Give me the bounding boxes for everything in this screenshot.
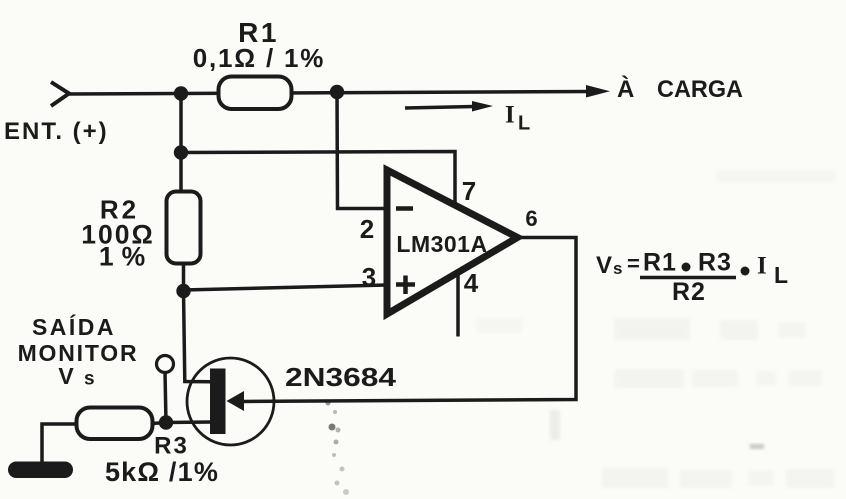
minus input mark [396, 206, 413, 211]
junction node: source/R3 [159, 415, 173, 429]
wire: V+ rail to pin 7 [181, 152, 455, 208]
wire: node B down to transistor drain [184, 291, 212, 382]
svg-text:2N3684: 2N3684 [285, 362, 397, 392]
wire: source to R3 node [166, 420, 211, 424]
svg-text:3: 3 [362, 262, 376, 292]
svg-text:LM301A: LM301A [396, 231, 487, 257]
svg-text:R2: R2 [672, 278, 706, 306]
resistor R2 [167, 192, 201, 264]
svg-text:0,1Ω / 1%: 0,1Ω / 1% [193, 43, 325, 73]
svg-text:V: V [58, 363, 74, 389]
formula Vs = R1.R3/R2 . IL [596, 249, 788, 307]
svg-text:6: 6 [525, 206, 537, 231]
wire: R3 right to node [152, 423, 166, 424]
svg-text:1%: 1% [99, 242, 153, 272]
svg-text:R3: R3 [154, 433, 189, 460]
resistor R1 [219, 77, 292, 110]
svg-text:7: 7 [462, 176, 476, 206]
arrowhead to load [586, 85, 610, 98]
svg-text:2: 2 [360, 214, 374, 244]
svg-text:s: s [84, 369, 95, 390]
wire: node B to pin 3 [184, 285, 388, 290]
svg-text:s: s [613, 259, 622, 278]
svg-text:ENT. (+): ENT. (+) [4, 118, 109, 145]
op-amp U1 LM301A triangle [387, 170, 518, 314]
ground symbol [8, 462, 73, 479]
resistor R3 [77, 408, 153, 440]
junction node: R1/load/pin2 [330, 85, 344, 99]
svg-text:=: = [627, 251, 640, 276]
plus input mark [396, 282, 415, 287]
wire: pin 2 from load side of R1 [337, 92, 387, 209]
ink smudge trail [326, 401, 765, 496]
junction node: V+ rail [174, 145, 188, 159]
svg-text:SAÍDA: SAÍDA [32, 313, 116, 340]
svg-text:MONITOR: MONITOR [18, 340, 139, 366]
svg-text:L: L [518, 113, 530, 135]
svg-text:CARGA: CARGA [657, 76, 743, 103]
gate arrowhead [227, 391, 245, 411]
open terminal Vs monitor [157, 356, 174, 373]
wire: output pin 6 to gate loop [242, 238, 576, 402]
current arrow IL [405, 107, 474, 109]
svg-text:R3: R3 [698, 249, 732, 277]
wire: R2 bottom to node B [182, 264, 186, 292]
svg-text:L: L [774, 262, 788, 288]
input terminal ENT(+) chevron [51, 82, 69, 106]
junction node: input/R1 [174, 86, 188, 100]
wire: R3 left to ground [42, 424, 77, 463]
svg-text:R1: R1 [643, 249, 677, 277]
svg-text:4: 4 [464, 268, 479, 298]
transistor Q1 2N3684 circle [187, 358, 274, 445]
transistor channel bar [210, 369, 226, 435]
wire: main rail to load [66, 92, 590, 95]
wire: node A vertical (input side of R1) [179, 94, 183, 194]
svg-text:5kΩ /1%: 5kΩ /1% [105, 457, 219, 487]
wire: terminal stem [165, 372, 166, 423]
svg-text:I: I [505, 102, 515, 129]
svg-text:I: I [757, 253, 767, 280]
svg-text:À: À [617, 75, 634, 103]
faint print bleed-through rows [476, 170, 836, 488]
svg-text:V: V [596, 252, 612, 279]
pin 4 stub [456, 273, 460, 337]
junction node B [176, 284, 190, 298]
